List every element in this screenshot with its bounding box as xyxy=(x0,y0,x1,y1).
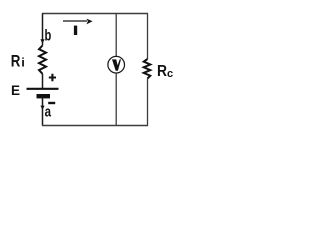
svg-text:R: R xyxy=(157,63,167,80)
battery E positive plate (long) xyxy=(27,88,59,90)
svg-text:R: R xyxy=(11,53,21,71)
svg-text:a: a xyxy=(45,104,52,121)
wire bottom xyxy=(42,125,148,127)
wire right upper (top corner to Rc) xyxy=(147,14,149,60)
current arrowhead into Ri xyxy=(40,39,44,43)
svg-text:E: E xyxy=(11,83,20,98)
resistor Rc (zigzag) xyxy=(144,59,151,79)
svg-text:i: i xyxy=(21,56,25,70)
battery minus sign xyxy=(48,102,55,104)
svg-text:b: b xyxy=(45,28,52,45)
wire left upper (corner down to node b / Ri) xyxy=(42,14,44,46)
battery E negative plate (short thick) xyxy=(37,94,51,98)
battery plus sign xyxy=(49,74,56,81)
wire Ri to battery xyxy=(42,74,44,88)
current arrowhead below battery xyxy=(40,106,44,110)
wire voltmeter branch lower xyxy=(115,73,117,126)
wire top (node b to top-right corner) xyxy=(42,13,148,15)
wire battery to node a / bottom xyxy=(42,96,44,125)
voltmeter U1 circle xyxy=(108,56,125,73)
current arrow I (top) xyxy=(63,20,87,22)
wire right lower (Rc to bottom corner) xyxy=(147,79,149,126)
label I xyxy=(74,26,77,35)
svg-text:c: c xyxy=(167,68,173,80)
wire voltmeter branch upper xyxy=(115,14,117,57)
voltmeter V letter xyxy=(112,59,121,70)
resistor Ri (zigzag) xyxy=(39,46,46,74)
